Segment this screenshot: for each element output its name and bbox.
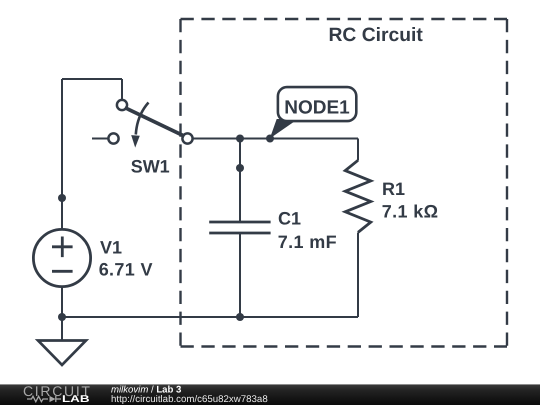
NODE1 callout (270, 87, 357, 138)
wire resistor top lead (357, 139, 359, 161)
wire cap branch lower (239, 234, 241, 318)
svg-text:NODE1: NODE1 (284, 98, 350, 119)
wire resistor bottom lead (357, 233, 359, 318)
wire common to right (193, 138, 359, 140)
node dot left lower (58, 313, 66, 321)
capacitor C1 (209, 222, 270, 233)
svg-text:7.1 mF: 7.1 mF (278, 232, 337, 252)
wire V1 bottom (61, 288, 63, 341)
svg-text:C1: C1 (278, 209, 301, 229)
svg-text:6.71 V: 6.71 V (99, 260, 153, 280)
wire left vertical V1 top (61, 79, 63, 229)
switch SW1 (92, 100, 193, 148)
footer bar top highlight (0, 384, 540, 386)
resistor R1 (345, 160, 371, 232)
wire bottom horizontal (62, 316, 358, 318)
dashed box RC Circuit (181, 19, 508, 347)
svg-text:7.1 kΩ: 7.1 kΩ (382, 202, 439, 222)
svg-text:http://circuitlab.com/c65u82xw: http://circuitlab.com/c65u82xw783a8 (111, 394, 268, 405)
ground (38, 341, 86, 366)
voltage source V1 (33, 229, 90, 286)
svg-text:SW1: SW1 (131, 157, 170, 177)
svg-text:LAB: LAB (62, 394, 90, 405)
footer bar (0, 384, 540, 405)
wire cap branch upper (239, 139, 241, 222)
node dot left upper (58, 194, 66, 202)
svg-text:RC Circuit: RC Circuit (329, 25, 424, 46)
wire top-left horizontal (62, 78, 122, 80)
svg-text:V1: V1 (100, 238, 122, 258)
node dot NODE1 anchor (266, 135, 274, 143)
svg-text:R1: R1 (382, 179, 405, 199)
node dot cap bottom (236, 313, 244, 321)
node dot cap mid (236, 164, 244, 172)
node dot cap top (236, 135, 244, 143)
logo waveform (27, 396, 61, 402)
wire switch top lead (121, 79, 123, 101)
